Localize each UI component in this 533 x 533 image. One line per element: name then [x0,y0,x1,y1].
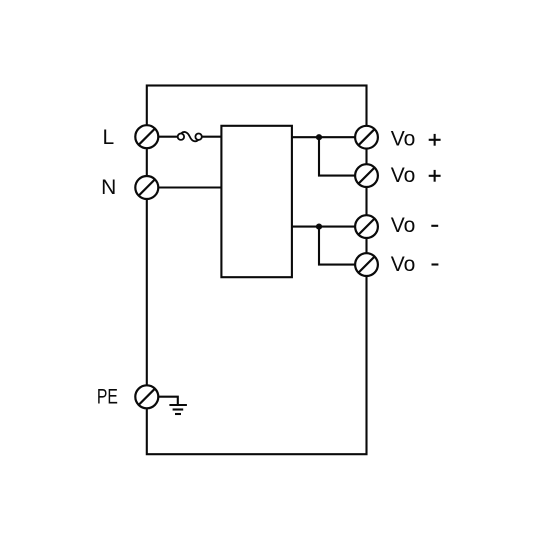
terminal Vo+ 1 [355,126,378,149]
terminal Vo+ 2 [355,164,378,187]
wire block output to Vo- terminal 3 [292,226,367,228]
minus sign (terminal 3) [431,225,438,227]
svg-text:Vo: Vo [391,253,416,276]
terminal Vo- 4 [355,253,378,276]
svg-text:Vo: Vo [391,127,416,150]
converter block U1 [221,126,292,277]
plus sign (terminal 2) [429,170,441,182]
terminal Vo- 3 [355,215,378,238]
fuse F1 [178,132,202,141]
wire branch to Vo- terminal 4 [319,227,367,265]
minus sign (terminal 4) [432,263,439,265]
wire fuse to converter block [201,136,221,138]
ground symbol [169,405,187,414]
plus sign (terminal 1) [429,134,441,146]
terminal L [135,125,158,148]
wire block output to Vo+ terminal 1 [292,136,367,138]
svg-text:Vo: Vo [391,164,416,187]
node junction Vo- [316,224,322,230]
node junction Vo+ [316,134,322,140]
svg-text:N: N [101,176,116,199]
terminal PE [135,385,158,408]
terminal N [135,176,158,199]
wire outer loop (input rail, top link, output rail, bottom link) [147,86,367,455]
wire N terminal to converter block [147,186,222,188]
wire PE terminal to ground [147,397,178,405]
svg-text:PE: PE [97,385,118,408]
svg-text:Vo: Vo [391,214,416,237]
wire L terminal to fuse [147,136,178,138]
svg-text:L: L [102,126,114,149]
wire branch to Vo+ terminal 2 [319,137,367,175]
